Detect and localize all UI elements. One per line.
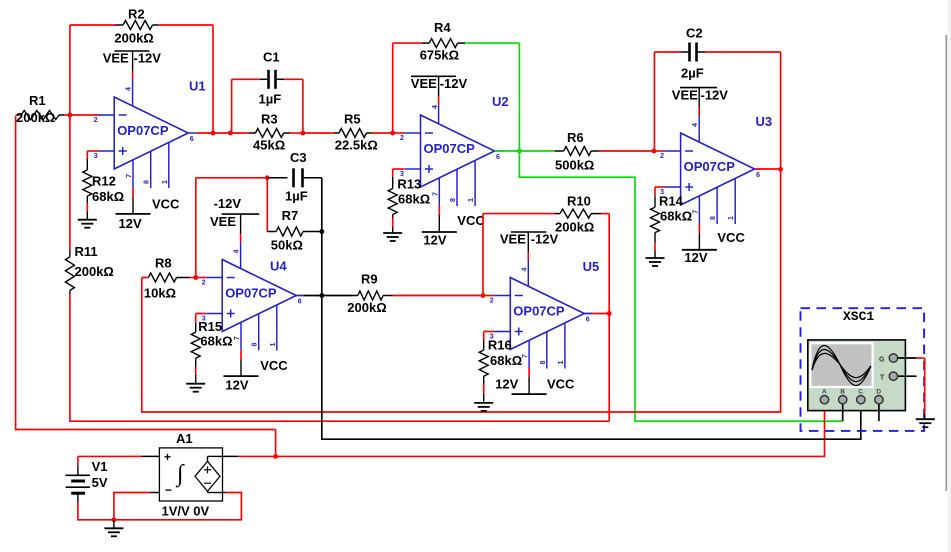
node junction R9/R10/U5 pin2: [481, 293, 486, 298]
wire A1 bottom right return: [223, 492, 227, 494]
U3 bottom pins and VCC 12V rail: [698, 196, 700, 224]
VEE rail U1 -12V: [114, 50, 149, 52]
svg-text:OP07CP: OP07CP: [117, 123, 169, 138]
svg-text:1µF: 1µF: [259, 92, 282, 107]
node A1 output junction: [273, 454, 278, 459]
wire A1 output junction up to R1 loop: [275, 430, 277, 457]
ground below junction: [113, 520, 115, 529]
svg-text:OP07CP: OP07CP: [513, 304, 565, 319]
wire scope G to ground: [898, 357, 917, 359]
svg-text:1: 1: [468, 198, 475, 202]
capacitor C1 1uF: [231, 79, 233, 133]
node U5 output junction: [584, 313, 593, 315]
wire U2 pin2: [393, 132, 405, 134]
svg-text:2: 2: [202, 280, 206, 287]
svg-text:2µF: 2µF: [681, 66, 704, 81]
oscilloscope XSC1 dashed boundary: [801, 308, 925, 431]
wire U4 pin2: [196, 277, 206, 279]
svg-text:VEE: VEE: [103, 51, 129, 66]
svg-text:∫: ∫: [175, 461, 185, 488]
svg-text:A: A: [822, 389, 827, 396]
resistor R15 68k at U4 pin3: [196, 313, 206, 315]
diamond dependent source inside A1: [195, 461, 220, 491]
svg-text:200kΩ: 200kΩ: [16, 110, 55, 125]
svg-text:-12V: -12V: [134, 51, 162, 66]
wire A1 output: [223, 455, 239, 457]
svg-text:-12V: -12V: [701, 88, 729, 103]
svg-text:R5: R5: [344, 112, 361, 127]
svg-text:6: 6: [190, 136, 194, 143]
wire black net C3/R7/U4out vertical: [321, 178, 323, 232]
svg-text:D: D: [876, 389, 881, 396]
resistor R9 200k: [352, 295, 358, 297]
svg-text:2: 2: [400, 135, 404, 142]
svg-text:5V: 5V: [92, 475, 108, 490]
wire scope B stub to green: [842, 404, 844, 421]
resistor R11 200k in x=70 vertical: [69, 250, 71, 257]
node U3 output junction: [755, 168, 763, 170]
capacitor C3 1uF: [267, 177, 287, 179]
U2 bottom pins and VCC 12V rail: [438, 178, 440, 206]
svg-text:12V: 12V: [684, 250, 707, 265]
wire R10 right vertical down to U5 output and R11 line: [608, 214, 610, 314]
svg-text:OP07CP: OP07CP: [684, 159, 736, 174]
wire A1 - input to ground junction: [150, 492, 159, 494]
svg-text:8: 8: [252, 343, 259, 347]
U4 bottom pins and VCC 12V rail: [240, 322, 242, 350]
resistor R14 68k at U3 pin3: [655, 186, 665, 188]
svg-text:C1: C1: [263, 50, 280, 65]
svg-text:7: 7: [432, 192, 439, 196]
node junction C3 left / R7 left: [265, 175, 270, 180]
scope terminals A B C D G T: [820, 396, 828, 404]
svg-text:R15: R15: [198, 319, 222, 334]
op-amp U3 OP07CP: [681, 133, 755, 205]
svg-text:A1: A1: [176, 431, 193, 446]
resistor R6 500k: [555, 150, 564, 152]
ground below R13: [383, 232, 402, 234]
node U2 output green junction: [495, 150, 504, 152]
svg-text:R10: R10: [567, 194, 591, 209]
wire V1 plus to A1 + input: [78, 455, 142, 457]
svg-text:675kΩ: 675kΩ: [420, 48, 459, 63]
svg-text:500kΩ: 500kΩ: [555, 158, 594, 173]
capacitor C2 2uF feedback U3: [653, 52, 655, 151]
ground at scope G: [916, 418, 935, 420]
svg-text:R11: R11: [75, 244, 98, 259]
svg-text:4: 4: [692, 123, 699, 127]
wire vertical net x=70 (R2 top to R11): [69, 25, 71, 115]
wire U4 output to R9: [304, 295, 322, 297]
svg-text:68kΩ: 68kΩ: [398, 192, 430, 207]
svg-text:R14: R14: [659, 194, 684, 209]
wire U1 output row: [197, 132, 213, 134]
resistor R10 200k feedback U5: [482, 214, 484, 296]
wire U4 output to scope channel C (black): [322, 296, 861, 440]
wire green jog down to scope B: [519, 151, 842, 421]
svg-text:VEE: VEE: [672, 88, 698, 103]
svg-text:22.5kΩ: 22.5kΩ: [335, 138, 378, 153]
svg-text:200kΩ: 200kΩ: [114, 31, 153, 46]
svg-text:12V: 12V: [225, 378, 248, 393]
svg-text:12V: 12V: [423, 233, 446, 248]
U5 bottom pins and VCC 12V rail (12V left): [528, 340, 530, 368]
VEE rail U3 -12V: [680, 87, 717, 89]
svg-text:10kΩ: 10kΩ: [144, 286, 176, 301]
svg-text:V1: V1: [92, 459, 108, 474]
wire U3 pin2: [654, 150, 665, 152]
svg-text:2: 2: [94, 117, 98, 124]
node A - junction R1/R2/R11/U1 pin2: [68, 113, 73, 118]
svg-text:1µF: 1µF: [285, 189, 308, 204]
svg-text:U4: U4: [270, 259, 287, 274]
svg-text:200kΩ: 200kΩ: [347, 300, 386, 315]
wire scope D stub: [878, 404, 880, 421]
svg-text:OP07CP: OP07CP: [225, 286, 277, 301]
svg-text:200kΩ: 200kΩ: [555, 220, 594, 235]
svg-text:7: 7: [522, 354, 529, 358]
wire V1 minus down to ground junction: [78, 502, 114, 520]
svg-text:R6: R6: [567, 130, 584, 145]
svg-text:7: 7: [126, 174, 133, 178]
wire C3 loop left vertical: [195, 178, 197, 278]
svg-text:-12V: -12V: [214, 196, 242, 211]
svg-text:8: 8: [540, 361, 547, 365]
wire R1 feedback loop from A1 output (left edge): [16, 116, 276, 430]
svg-text:U2: U2: [492, 94, 509, 109]
resistor R16 68k at U5 pin3: [484, 331, 495, 333]
svg-text:68kΩ: 68kΩ: [200, 334, 232, 349]
op-amp U5 OP07CP: [510, 278, 584, 350]
svg-text:1: 1: [270, 343, 277, 347]
svg-text:68kΩ: 68kΩ: [490, 353, 522, 368]
svg-text:2: 2: [490, 298, 494, 305]
svg-text:6: 6: [586, 317, 590, 324]
svg-text:R4: R4: [434, 20, 451, 35]
ground below R12: [78, 219, 97, 221]
svg-text:G: G: [879, 357, 885, 364]
svg-text:12V: 12V: [495, 377, 518, 392]
node junction R6/C2/U3 pin2: [652, 149, 657, 154]
svg-text:4: 4: [432, 105, 439, 109]
svg-text:U1: U1: [189, 79, 206, 94]
svg-text:OP07CP: OP07CP: [424, 141, 476, 156]
svg-text:6: 6: [298, 299, 302, 306]
ground below R14: [646, 257, 665, 259]
VEE rail U4 -12V (stacked label): [222, 213, 260, 215]
wire R11 bottom to U5 output loop: [70, 294, 609, 421]
svg-text:4: 4: [522, 268, 529, 272]
window edge artifact right side: [947, 0, 951, 552]
svg-text:VEE: VEE: [411, 76, 437, 91]
svg-text:3: 3: [94, 153, 98, 160]
svg-text:U3: U3: [756, 114, 773, 129]
svg-text:R1: R1: [29, 93, 46, 108]
svg-text:R9: R9: [361, 272, 378, 287]
svg-text:VCC: VCC: [547, 377, 575, 392]
svg-text:C2: C2: [686, 26, 703, 41]
resistor R3 45k: [230, 132, 249, 134]
svg-text:R16: R16: [488, 338, 512, 353]
VEE rail U5 -12V: [511, 231, 546, 233]
resistor R4 675k feedback U2: [392, 43, 394, 133]
svg-text:−: −: [165, 483, 172, 497]
svg-text:12V: 12V: [119, 216, 142, 231]
node junction C1 left / R3 left: [228, 131, 233, 136]
node junction C1 right / R3-R5: [301, 131, 306, 136]
svg-text:68kΩ: 68kΩ: [660, 209, 692, 224]
svg-text:1: 1: [162, 180, 169, 184]
ground below R16: [474, 402, 493, 404]
svg-text:VEE: VEE: [500, 232, 526, 247]
node junction R8/C3loop/U4 pin2: [193, 275, 198, 280]
wire U3 output feedback down-left to R8: [142, 169, 781, 412]
resistor R1 200k: [21, 111, 59, 120]
svg-text:R12: R12: [92, 174, 116, 189]
ground below R15: [186, 383, 205, 385]
svg-text:C: C: [858, 389, 863, 396]
source V1 5V battery: [77, 456, 79, 465]
svg-text:2: 2: [660, 153, 664, 160]
svg-text:VCC: VCC: [717, 230, 745, 245]
node junction R4/R5/U2 pin2: [390, 131, 395, 136]
svg-text:VCC: VCC: [457, 213, 485, 228]
node junction R7 right on black net: [319, 229, 324, 234]
oscilloscope body: [808, 340, 906, 411]
wire C3 row: [196, 177, 259, 179]
svg-text:R13: R13: [397, 177, 421, 192]
wire green R4 to U2 output: [465, 42, 519, 44]
svg-text:200kΩ: 200kΩ: [75, 264, 114, 279]
svg-text:4: 4: [126, 87, 133, 91]
resistor R2 200k feedback U1: [70, 24, 115, 26]
svg-text:8: 8: [144, 180, 151, 184]
resistor R7 50k: [266, 178, 268, 232]
svg-text:-12V: -12V: [531, 232, 559, 247]
svg-text:R3: R3: [261, 112, 278, 127]
node U4 output junction black: [296, 295, 304, 297]
svg-text:6: 6: [756, 172, 760, 179]
svg-text:-12V: -12V: [440, 76, 468, 91]
controlled source block A1: [159, 448, 222, 501]
svg-text:1: 1: [558, 361, 565, 365]
svg-text:6: 6: [496, 154, 500, 161]
svg-text:VCC: VCC: [260, 358, 288, 373]
svg-text:VEE: VEE: [210, 214, 236, 229]
svg-text:R2: R2: [128, 7, 145, 22]
node junction R2/U1 output: [211, 131, 216, 136]
svg-text:C3: C3: [290, 150, 307, 165]
VEE rail U2 -12V: [411, 75, 456, 77]
resistor R5 22.5k: [303, 132, 334, 134]
svg-text:4: 4: [234, 250, 241, 254]
node ground junction V1/A1: [112, 517, 117, 522]
svg-text:+: +: [164, 450, 171, 464]
svg-text:R8: R8: [155, 256, 172, 271]
wire R2 right vertical to U1 output: [212, 25, 214, 133]
svg-text:VCC: VCC: [152, 197, 180, 212]
oscilloscope screen with sine waves: [810, 343, 872, 387]
wire green U2 output to R6: [503, 150, 519, 152]
svg-text:R7: R7: [282, 208, 299, 223]
op-amp U2 OP07CP: [421, 115, 495, 187]
wire scope T stub: [898, 375, 917, 377]
wire A1 output to scope channel A: [276, 404, 825, 456]
svg-text:8: 8: [450, 198, 457, 202]
svg-text:68kΩ: 68kΩ: [92, 189, 124, 204]
svg-text:50kΩ: 50kΩ: [271, 238, 303, 253]
wire U1 pin2 input: [70, 114, 99, 116]
svg-text:1: 1: [728, 216, 735, 220]
wire U5 pin2: [483, 295, 494, 297]
op-amp U1 OP07CP: [114, 97, 188, 169]
U1 bottom pins and VCC 12V rail: [132, 160, 134, 188]
svg-text:8: 8: [710, 216, 717, 220]
svg-text:7: 7: [692, 210, 699, 214]
resistor R8 10k input of U4: [148, 273, 176, 282]
op-amp U4 OP07CP: [222, 260, 296, 332]
svg-text:B: B: [840, 389, 845, 396]
svg-text:T: T: [880, 375, 885, 382]
svg-text:U5: U5: [583, 259, 600, 274]
svg-text:7: 7: [234, 336, 241, 340]
svg-text:1V/V 0V: 1V/V 0V: [162, 504, 210, 519]
resistor R13 68k at U2 pin3: [393, 168, 405, 170]
resistor R12 68k at U1 pin3: [87, 150, 98, 152]
svg-text:45kΩ: 45kΩ: [253, 138, 285, 153]
svg-text:XSC1: XSC1: [843, 309, 874, 324]
